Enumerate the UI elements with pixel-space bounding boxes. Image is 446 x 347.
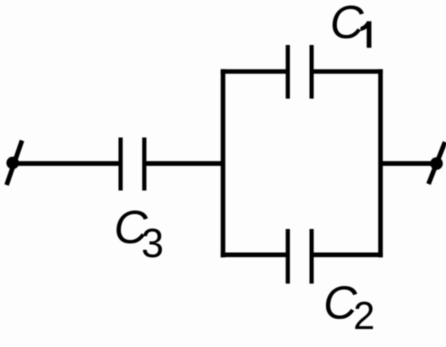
wire (top right) [314, 69, 383, 74]
wire (bottom left) [221, 253, 287, 258]
wire [146, 161, 225, 166]
wire (bottom right) [314, 253, 383, 258]
svg-text:3: 3 [141, 220, 164, 266]
svg-text:C: C [330, 0, 364, 48]
capacitor C3 [121, 138, 145, 191]
node A (left terminal) [6, 141, 22, 186]
wire (left branch vertical) [221, 69, 226, 257]
wire [381, 161, 437, 166]
capacitor C2 [288, 229, 312, 284]
node B (right terminal) [429, 142, 446, 184]
wire (top left) [221, 69, 287, 74]
label C3 [114, 201, 164, 266]
svg-text:2: 2 [353, 295, 375, 338]
wire (right branch vertical) [378, 69, 383, 257]
capacitor C1 [288, 45, 312, 99]
wire [13, 161, 119, 166]
label C1 [330, 0, 371, 48]
label C2 [323, 277, 375, 338]
